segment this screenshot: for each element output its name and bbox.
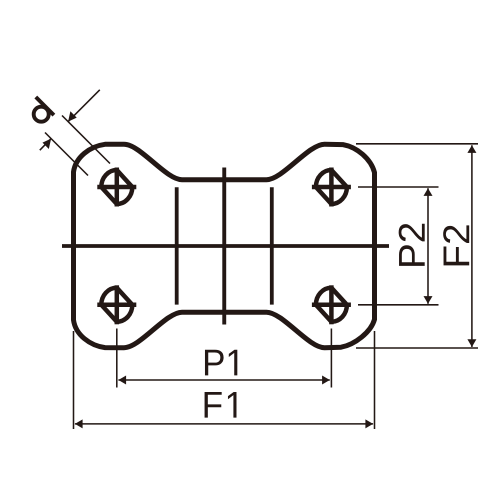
P2 dimension line xyxy=(427,188,429,304)
hole bottom-right xyxy=(312,285,351,324)
d extension line upper xyxy=(62,116,110,164)
P2 extension line top xyxy=(358,186,439,188)
arrowhead P2 bottom xyxy=(424,296,433,304)
arrowhead d upper xyxy=(68,111,77,121)
arrowhead F2 top xyxy=(467,145,476,153)
label d (ascender stroke) xyxy=(36,97,54,115)
P1 extension line left xyxy=(116,329,118,388)
left bend line xyxy=(175,187,179,304)
label F2 xyxy=(443,225,469,265)
d extension line lower xyxy=(45,133,88,176)
F2 extension line bottom xyxy=(356,347,478,349)
arrowhead F1 right xyxy=(365,419,373,428)
right bend line xyxy=(270,187,274,304)
hole top-right xyxy=(312,168,351,207)
label P2 xyxy=(399,224,425,266)
F2 extension line top xyxy=(356,143,478,145)
F1 dimension line xyxy=(75,423,373,425)
hole bottom-left xyxy=(97,285,136,324)
F1 extension line left xyxy=(73,331,75,429)
arrowhead F1 left xyxy=(75,419,83,428)
d leader lower xyxy=(40,139,51,151)
arrowhead P1 right xyxy=(322,376,330,385)
horizontal centerline xyxy=(62,244,389,248)
P1 dimension line xyxy=(118,379,329,381)
center bend line xyxy=(222,168,226,325)
F2 dimension line xyxy=(471,145,473,347)
arrowhead F2 bottom xyxy=(467,339,476,347)
plate outline xyxy=(74,144,375,348)
label d (bowl) xyxy=(34,107,49,122)
arrowhead d lower xyxy=(42,139,51,149)
P1 extension line right xyxy=(330,329,332,388)
F1 extension line right xyxy=(374,331,376,429)
label P1 xyxy=(205,350,237,376)
arrowhead P1 left xyxy=(118,376,126,385)
P2 extension line bottom xyxy=(358,304,439,306)
label F1 xyxy=(205,392,237,418)
arrowhead P2 top xyxy=(424,188,433,196)
hole top-left xyxy=(97,168,136,207)
d leader upper xyxy=(68,90,100,122)
